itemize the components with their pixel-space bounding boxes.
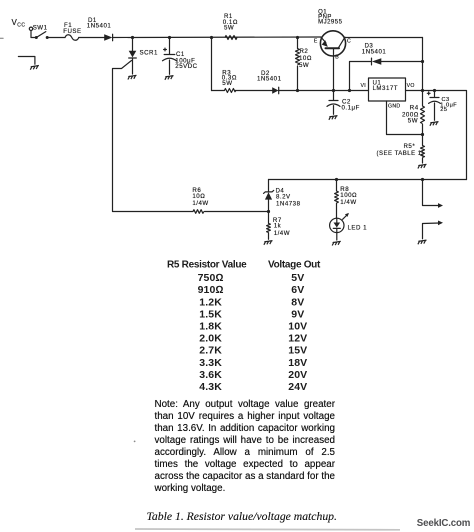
svg-text:24V: 24V — [288, 381, 307, 393]
svg-text:B: B — [335, 55, 339, 61]
svg-text:9V: 9V — [291, 308, 304, 320]
svg-text:(SEE TABLE 1): (SEE TABLE 1) — [377, 151, 425, 157]
svg-text:20V: 20V — [288, 369, 307, 381]
svg-text:GND: GND — [388, 103, 400, 109]
svg-text:8V: 8V — [291, 296, 304, 308]
svg-text:R5*: R5* — [404, 143, 416, 150]
svg-text:910Ω: 910Ω — [198, 284, 224, 296]
svg-text:2.0K: 2.0K — [199, 333, 222, 345]
svg-text:8.2V: 8.2V — [276, 194, 291, 201]
svg-text:1/4W: 1/4W — [340, 199, 356, 206]
svg-text:5W: 5W — [222, 80, 232, 87]
svg-text:R2: R2 — [300, 48, 309, 55]
svg-text:VI: VI — [361, 83, 367, 89]
svg-text:1.8K: 1.8K — [199, 321, 222, 333]
svg-text:CC: CC — [17, 23, 25, 29]
svg-text:18V: 18V — [288, 357, 307, 369]
svg-text:Voltage Out: Voltage Out — [268, 259, 321, 270]
svg-text:1/4W: 1/4W — [192, 200, 208, 207]
svg-text:SW1: SW1 — [33, 24, 48, 31]
svg-text:1.5K: 1.5K — [199, 308, 222, 320]
svg-text:E: E — [314, 38, 318, 44]
svg-text:1N5401: 1N5401 — [362, 49, 387, 56]
svg-text:MJ2955: MJ2955 — [318, 19, 343, 25]
svg-text:VO: VO — [407, 83, 415, 89]
svg-text:5W: 5W — [299, 62, 309, 69]
svg-text:3.6K: 3.6K — [199, 369, 222, 381]
svg-text:5V: 5V — [291, 272, 304, 284]
svg-text:SCR1: SCR1 — [140, 50, 158, 57]
svg-text:LM317T: LM317T — [373, 85, 399, 92]
svg-text:FUSE: FUSE — [63, 28, 81, 35]
svg-text:1.2K: 1.2K — [199, 296, 222, 308]
svg-text:C: C — [347, 38, 351, 44]
svg-text:2.7K: 2.7K — [199, 345, 222, 357]
svg-text:100Ω: 100Ω — [340, 192, 357, 199]
svg-text:1N5401: 1N5401 — [87, 22, 112, 29]
svg-text:0.1μF: 0.1μF — [342, 105, 360, 112]
svg-text:1N5401: 1N5401 — [257, 76, 282, 83]
svg-text:15V: 15V — [288, 345, 307, 357]
svg-text:1k: 1k — [274, 222, 282, 229]
svg-text:6V: 6V — [291, 284, 304, 296]
svg-text:25: 25 — [440, 107, 447, 113]
svg-text:4.3K: 4.3K — [199, 381, 222, 393]
svg-text:10V: 10V — [288, 321, 307, 333]
svg-text:12V: 12V — [288, 333, 307, 345]
svg-text:1N4738: 1N4738 — [276, 201, 301, 208]
svg-text:1/4W: 1/4W — [274, 230, 290, 237]
svg-text:LED 1: LED 1 — [348, 224, 368, 231]
svg-text:5W: 5W — [224, 25, 234, 32]
svg-text:5W: 5W — [408, 118, 418, 125]
svg-text:750Ω: 750Ω — [198, 272, 224, 284]
svg-text:3.3K: 3.3K — [199, 357, 222, 369]
svg-text:25VDC: 25VDC — [175, 63, 197, 70]
svg-text:R5 Resistor Value: R5 Resistor Value — [167, 259, 247, 270]
